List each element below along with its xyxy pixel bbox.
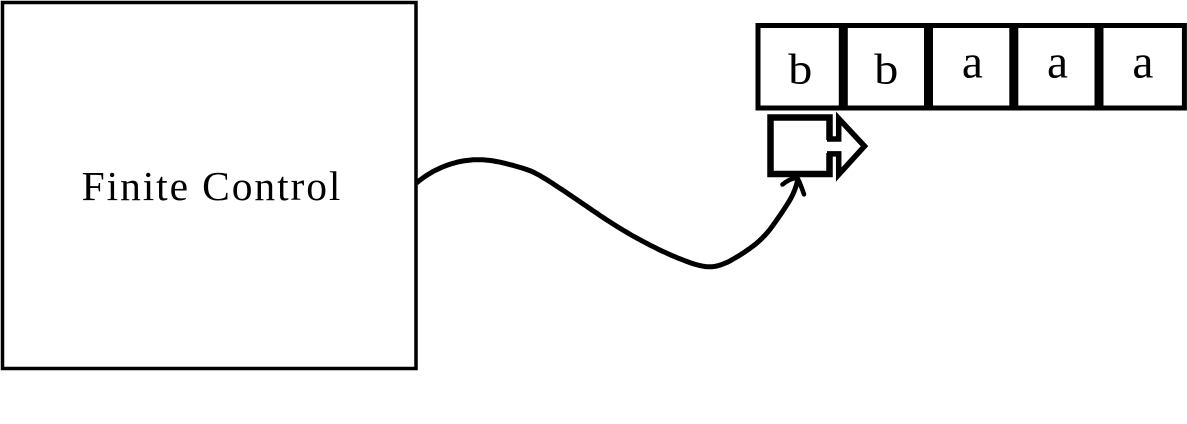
tape divider 1 — [839, 23, 848, 111]
tape divider 3 — [1009, 23, 1018, 111]
svg-text:b: b — [874, 45, 898, 93]
svg-text:Finite Control: Finite Control — [82, 163, 343, 209]
tape outer rect — [758, 26, 1184, 109]
head square — [771, 118, 830, 175]
svg-text:a: a — [1047, 36, 1068, 88]
connector arrowhead — [783, 178, 805, 195]
tape divider 4 — [1095, 23, 1104, 111]
svg-text:b: b — [788, 45, 812, 93]
svg-text:a: a — [1132, 36, 1153, 88]
svg-text:a: a — [962, 36, 983, 88]
tape divider 2 — [924, 23, 933, 111]
finite control box — [3, 3, 417, 369]
head arrow — [827, 119, 865, 175]
connector curve — [417, 160, 798, 267]
